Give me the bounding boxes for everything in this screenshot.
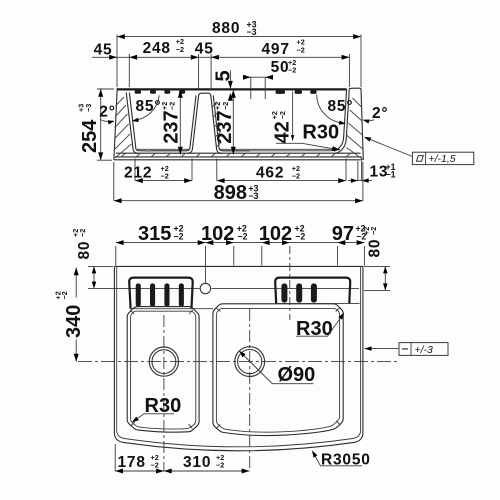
svg-text:340: 340 <box>63 305 85 338</box>
svg-text:42: 42 <box>272 121 294 143</box>
angle 85deg right <box>317 95 354 126</box>
svg-text:45: 45 <box>195 41 214 58</box>
angle 2deg right <box>362 105 388 124</box>
svg-text:−3: −3 <box>248 191 258 201</box>
svg-text:−2: −2 <box>238 232 248 242</box>
svg-text:−1: −1 <box>386 170 396 180</box>
svg-text:2°: 2° <box>99 104 115 121</box>
right wall top + outer <box>349 88 363 160</box>
dim 237 bowl2 <box>213 90 236 155</box>
left dim 80 <box>71 229 121 289</box>
dim 462 <box>217 159 346 184</box>
svg-text:254: 254 <box>79 119 101 153</box>
angle 85deg left <box>132 95 162 123</box>
svg-text:237: 237 <box>214 110 236 143</box>
hatching divider <box>212 102 221 147</box>
svg-text:898: 898 <box>214 182 247 204</box>
svg-text:Ø90: Ø90 <box>278 364 316 386</box>
floor cut lines <box>116 152 361 154</box>
svg-text:−2: −2 <box>151 461 159 470</box>
svg-text:178: 178 <box>118 454 146 471</box>
top edge <box>114 265 363 267</box>
left outer wall <box>114 88 117 160</box>
svg-text:−2: −2 <box>297 46 305 55</box>
left dim 340 <box>54 268 85 362</box>
dim 50 <box>243 58 296 99</box>
svg-text:+/-1,5: +/-1,5 <box>429 153 456 165</box>
bowl2 inner <box>216 308 339 432</box>
groove blobs on rim <box>135 90 317 94</box>
bowl1 inner <box>131 311 196 429</box>
right groove pad <box>275 278 350 304</box>
front outer arc <box>114 434 363 451</box>
bowl2 floor inner line <box>223 150 332 152</box>
right dim 80 <box>362 227 390 291</box>
angle 2deg left <box>99 104 115 125</box>
dim 212 <box>124 159 192 184</box>
svg-text:−2: −2 <box>369 227 378 235</box>
label R30 left bowl <box>131 395 182 424</box>
svg-text:5: 5 <box>213 70 235 81</box>
dim 880 top <box>117 20 361 88</box>
svg-text:−3: −3 <box>247 27 257 37</box>
bowl1 right wall = divider left (double) <box>187 96 199 154</box>
tolerance frame +/-3 <box>365 343 449 356</box>
right edge double <box>362 266 364 433</box>
dim row 45/248/45/497 <box>92 37 349 90</box>
drain2 <box>235 347 265 377</box>
svg-text:80: 80 <box>367 239 384 258</box>
svg-text:−2: −2 <box>216 461 224 470</box>
svg-text:−2: −2 <box>161 171 169 180</box>
sink body outline <box>114 88 363 160</box>
svg-text:80: 80 <box>76 241 93 260</box>
bowl2 outer <box>213 304 343 436</box>
svg-text:−2: −2 <box>288 66 296 75</box>
svg-text:−2: −2 <box>78 229 87 237</box>
svg-text:−2: −2 <box>60 291 69 299</box>
left edge double <box>113 266 115 433</box>
bowl1 left wall (double) <box>126 93 138 154</box>
bowl2 right wall (double) with R30 bottom corner <box>334 89 347 151</box>
svg-text:−2: −2 <box>174 232 184 242</box>
svg-text:50: 50 <box>271 59 290 76</box>
bowl1 outer <box>127 307 199 433</box>
bowl1 corner ticks <box>130 310 193 429</box>
drain1 vertical centerline <box>163 315 165 471</box>
label diam 90 <box>238 349 316 386</box>
top dim row: 315/102/102/97 <box>116 223 367 320</box>
rim top thick line (back deck edge seen across) <box>117 88 347 90</box>
svg-text:880: 880 <box>212 20 240 37</box>
hatching right wall <box>347 98 363 159</box>
bowl back floor edge lines <box>137 148 190 150</box>
label R30 right bowl <box>296 311 346 340</box>
drain1 <box>149 347 178 376</box>
dim 5 <box>213 70 235 100</box>
label R30 section <box>276 122 340 153</box>
right grooves <box>281 283 317 302</box>
svg-text:R30: R30 <box>302 122 339 144</box>
bottom outline <box>114 159 363 161</box>
svg-text:45: 45 <box>94 42 113 59</box>
svg-text:85°: 85° <box>328 98 354 115</box>
svg-text:102: 102 <box>259 223 292 245</box>
left grooves <box>136 283 184 306</box>
svg-text:237: 237 <box>161 110 183 143</box>
svg-text:−2: −2 <box>221 102 230 110</box>
svg-text:497: 497 <box>262 41 290 58</box>
svg-text:−2: −2 <box>176 45 184 54</box>
svg-text:R30: R30 <box>296 318 333 340</box>
svg-text:−2: −2 <box>168 102 177 110</box>
svg-text:102: 102 <box>201 223 234 245</box>
label R3050 <box>310 449 371 468</box>
svg-text:−2: −2 <box>278 111 287 119</box>
svg-text:248: 248 <box>143 40 171 57</box>
back deck line (80 ref) <box>121 288 359 290</box>
hatching floor <box>121 153 351 157</box>
svg-text:−2: −2 <box>295 232 305 242</box>
svg-text:315: 315 <box>138 223 171 245</box>
dim 42 <box>270 92 294 144</box>
tap hole <box>200 283 210 293</box>
outer body <box>78 266 397 470</box>
bowl2 corner ticks <box>216 307 340 428</box>
bottom dims 178/310 <box>115 444 249 474</box>
dim 898 <box>114 162 363 204</box>
svg-text:212: 212 <box>124 165 152 182</box>
front inner arc <box>117 431 361 447</box>
horizontal centerline <box>78 361 397 363</box>
hatching left wall <box>114 97 131 158</box>
dim 254 left <box>77 89 115 160</box>
svg-text:2°: 2° <box>372 105 388 122</box>
svg-text:85°: 85° <box>136 98 162 115</box>
svg-text:97: 97 <box>332 223 354 245</box>
svg-text:−3: −3 <box>84 104 93 112</box>
svg-text:+/-3: +/-3 <box>415 344 434 356</box>
svg-text:−2: −2 <box>292 171 300 180</box>
dim 13 <box>348 161 396 183</box>
tolerance frame +/-1,5 <box>363 135 474 165</box>
bowl2 left wall = divider right (double) <box>211 96 222 154</box>
left groove pad <box>129 278 193 309</box>
svg-text:310: 310 <box>183 454 211 471</box>
svg-text:462: 462 <box>256 165 284 182</box>
dim 237 bowl1 <box>160 90 183 155</box>
divider top rounded <box>199 93 211 95</box>
drain2 vertical centerline <box>249 309 251 471</box>
